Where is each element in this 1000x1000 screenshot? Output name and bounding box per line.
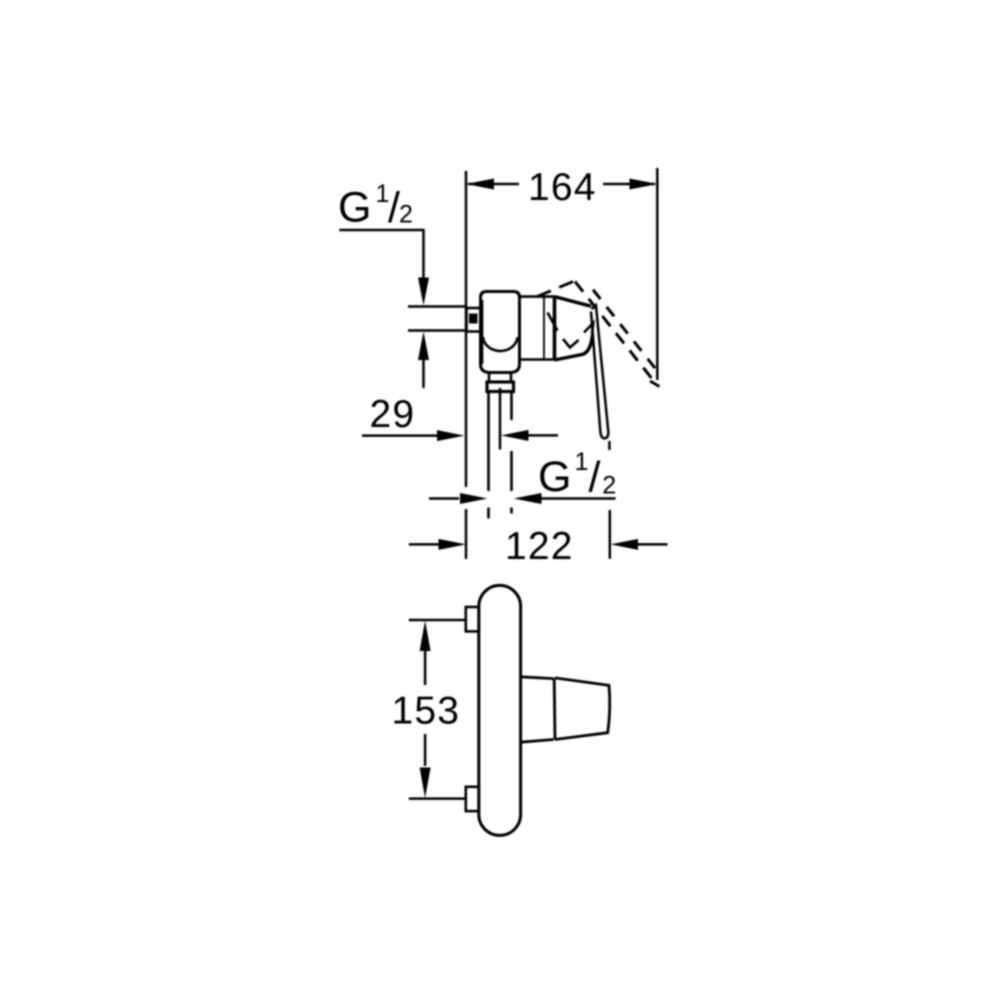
dimension 29 right arrowhead: [501, 430, 529, 441]
supply pipe top line: [408, 305, 466, 308]
hose right edge: [510, 392, 513, 514]
dimension 164 left arrowhead: [466, 179, 494, 190]
mixer body (side view, rounded): [481, 292, 520, 373]
svg-text:2: 2: [399, 200, 413, 228]
cartridge divider line: [543, 297, 545, 360]
dimension 29 left arrowhead: [437, 430, 465, 441]
dashed raised lever lower edge: [593, 290, 660, 375]
cartridge housing top line: [520, 295, 555, 298]
svg-text:153: 153: [392, 690, 461, 733]
rotation indicator arrowhead: [584, 323, 593, 335]
handle escutcheon (front view): [521, 677, 555, 742]
hose left edge: [487, 392, 490, 519]
outlet nut: [487, 382, 514, 392]
lower wall tab: [466, 787, 479, 811]
wall fitting screw (black square): [469, 314, 478, 324]
cone (handle escutcheon) top edge: [555, 297, 592, 307]
G 1/2 lower leader right tail: [542, 497, 616, 500]
dimension 153 down arrowhead: [420, 768, 431, 799]
dimension 122 right tail: [638, 543, 668, 546]
body left edge thick accent: [479, 300, 483, 364]
lever handle (down position): [591, 305, 608, 438]
dimension 164 line left segment: [468, 183, 519, 186]
dimension 29 line left tail: [362, 434, 438, 437]
wall line (left extension line of 164 dim): [465, 171, 468, 559]
dashed raised lever upper edge: [575, 282, 653, 381]
svg-text:164: 164: [528, 166, 597, 209]
wall fitting rectangle: [467, 308, 481, 332]
rotation indicator dash: [548, 313, 558, 331]
hose axis extension line (29 dim): [499, 388, 502, 450]
dimension 153 line lower segment: [424, 734, 427, 766]
svg-text:1: 1: [575, 448, 589, 476]
svg-text:G: G: [538, 453, 571, 501]
cartridge right edge (thick): [553, 296, 557, 360]
pipe diameter arrow tail: [422, 360, 425, 388]
svg-text:122: 122: [505, 525, 574, 568]
dimension 164 right arrowhead: [630, 179, 658, 190]
dashed raised lever tip: [650, 381, 660, 387]
G 1/2 top leader arrowhead (down): [418, 278, 429, 306]
G 1/2 lower leader right arrowhead: [514, 493, 542, 504]
dimension 122 left arrowhead (outside, pointing right): [439, 539, 467, 550]
svg-text:29: 29: [370, 393, 416, 436]
supply pipe bottom line: [408, 329, 466, 332]
svg-text:2: 2: [602, 472, 616, 500]
dimension 153 top extension line: [409, 619, 466, 622]
rotation indicator V dashes: [563, 339, 579, 348]
dimension 122 right arrowhead (outside, pointing left): [611, 539, 639, 550]
G 1/2 lower leader left tail: [429, 497, 459, 500]
G 1/2 lower leader left arrowhead: [460, 493, 488, 504]
cartridge housing bottom line: [520, 358, 555, 361]
upper wall tab: [466, 607, 479, 631]
dimension 122 right extension upper segment: [608, 441, 611, 450]
handle grip (front view): [555, 678, 610, 740]
svg-text:G: G: [338, 184, 371, 232]
cone bottom edge: [555, 335, 593, 360]
dashed raised lever lower-left dashes: [537, 281, 575, 297]
dimension 122 right extension line: [609, 510, 612, 559]
outlet neck right line: [510, 373, 513, 383]
svg-text:/: /: [589, 453, 601, 501]
dimension 29 right tail: [529, 434, 559, 437]
body bottom internal arc: [483, 337, 518, 351]
right extension line of 164 dim: [656, 168, 659, 380]
pipe diameter up-arrowhead below pipe: [418, 332, 429, 361]
dimension 153 line upper segment: [424, 651, 427, 685]
G 1/2 top leader underline: [339, 230, 423, 278]
capsule body (front view): [479, 585, 521, 835]
dimension 153 bottom extension line: [409, 797, 466, 800]
outlet neck left line: [488, 373, 491, 383]
dimension 122 left tail: [409, 543, 439, 546]
dimension 153 up arrowhead: [420, 621, 431, 652]
dimension 164 line right segment: [603, 183, 655, 186]
